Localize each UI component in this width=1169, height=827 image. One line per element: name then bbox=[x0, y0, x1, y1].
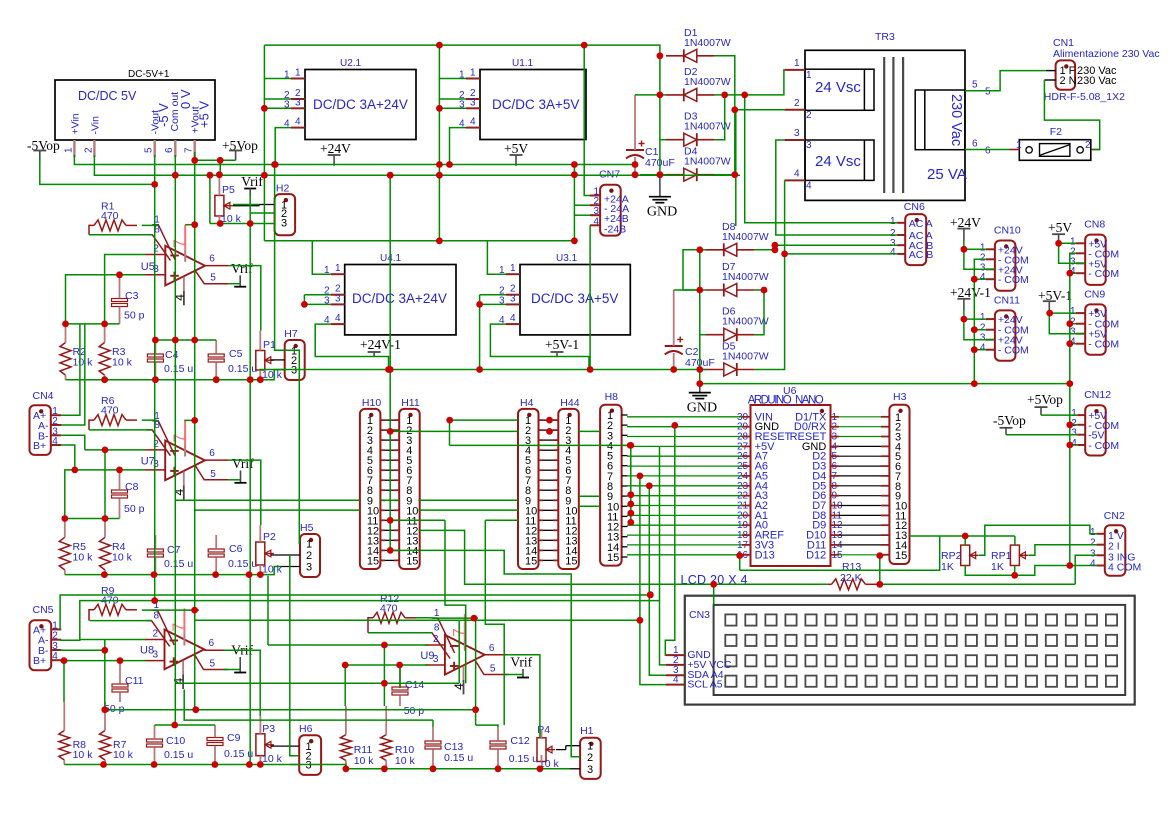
wire U5 pin7 to +5Vop bus bbox=[185, 224, 195, 226]
wire CN2 pin3 from ING line bbox=[1075, 555, 1096, 584]
pin stubs between H10 and H11 bbox=[380, 419, 385, 421]
svg-text:2: 2 bbox=[84, 147, 95, 153]
pin 1 of U8 bbox=[152, 610, 175, 645]
junction bbox=[961, 246, 968, 253]
wire x459.2 vertical bbox=[458, 620, 460, 683]
svg-text:1: 1 bbox=[794, 58, 800, 69]
pin 2 of U2.1 bbox=[291, 98, 305, 100]
wire +5V to CN8 pins 1/3 bbox=[1059, 243, 1086, 263]
svg-text:CN11: CN11 bbox=[994, 294, 1020, 306]
capacitor C12 0.15 u bbox=[490, 741, 506, 744]
svg-text:DC-5V+1: DC-5V+1 bbox=[128, 69, 170, 80]
wire CN6 pin4 row bbox=[785, 253, 898, 255]
wire CN5 pin3 to U8 pin2 bbox=[60, 640, 105, 651]
LCD module CN3 outer box bbox=[685, 596, 1135, 705]
svg-text:H8: H8 bbox=[605, 391, 619, 403]
wire x390.2 vertical from bus1 bbox=[389, 175, 391, 550]
wires H8 pins to U6 left pins bbox=[627, 416, 742, 418]
junction bbox=[476, 301, 483, 308]
capacitor C13 0.15 u bbox=[425, 741, 441, 744]
wire D8 right bbox=[755, 249, 775, 251]
junction bbox=[102, 515, 109, 522]
svg-text:5: 5 bbox=[985, 87, 991, 98]
svg-text:CN8: CN8 bbox=[1084, 219, 1105, 231]
junction bbox=[272, 161, 279, 168]
wire H4 row11 to x485.3 chain bbox=[485, 519, 518, 521]
wire bank4 AGND bus y768.8 bbox=[290, 765, 570, 769]
svg-text:7: 7 bbox=[172, 239, 189, 248]
wire +5Vop row to pin7 bbox=[195, 159, 236, 161]
wire row9 line bbox=[175, 499, 360, 501]
svg-text:0.15 u: 0.15 u bbox=[164, 363, 193, 375]
wire main bus y369.5 bbox=[259, 369, 706, 371]
svg-text:10 k: 10 k bbox=[113, 749, 134, 761]
connector CN5 bbox=[30, 620, 52, 670]
junction bbox=[212, 761, 219, 768]
junction bbox=[247, 376, 254, 383]
svg-text:H44: H44 bbox=[560, 397, 579, 409]
wire C13 feed from y720.1 bbox=[432, 720, 434, 727]
junction bbox=[670, 366, 677, 373]
svg-text:D13: D13 bbox=[755, 549, 775, 561]
wire row11 to x445 down bbox=[445, 520, 466, 683]
svg-text:10 k: 10 k bbox=[73, 357, 94, 369]
capacitor C5 0.15 u bbox=[208, 354, 224, 357]
pin 7 power of U9 bbox=[464, 614, 466, 639]
wire U7 pin8 row bbox=[89, 429, 152, 431]
svg-text:- COM: - COM bbox=[998, 274, 1029, 286]
svg-text:HDR-F-5.08_1X2: HDR-F-5.08_1X2 bbox=[1044, 91, 1125, 103]
wire U5 pin8 row bbox=[89, 234, 152, 236]
junction bbox=[207, 172, 214, 179]
junction bbox=[581, 42, 588, 49]
junction bbox=[731, 106, 738, 113]
pin 6 of H3 bbox=[881, 465, 889, 467]
junction bbox=[962, 533, 969, 540]
wire main bus to GND2 row y383.6 bbox=[700, 383, 1070, 385]
junction bbox=[627, 519, 634, 526]
wire Vrif bus x249.6 long bbox=[249, 213, 251, 765]
wire +5Vop vertical x195.1 bbox=[194, 152, 196, 710]
wire D7 leads bbox=[700, 289, 706, 291]
svg-text:+24V-1: +24V-1 bbox=[950, 285, 991, 300]
capacitor C1 470uF bbox=[626, 149, 644, 151]
wire U7 pin7 to +5Vop bus bbox=[185, 419, 195, 422]
pin 4 AC B of CN6 bbox=[897, 253, 905, 255]
op-amp U5 bbox=[165, 246, 205, 286]
pin 3 SDA A4 of CN3 bbox=[666, 674, 685, 676]
diode D6 1N4007W bbox=[724, 328, 737, 341]
junction bbox=[101, 321, 108, 328]
pin 7 power of U5 bbox=[184, 225, 186, 250]
junction bbox=[387, 517, 394, 524]
svg-text:230 Vac: 230 Vac bbox=[1077, 75, 1117, 87]
wire D6 right up to D7 row bbox=[755, 290, 764, 335]
svg-text:1: 1 bbox=[470, 68, 476, 79]
wire TR3 pin6 to F2 left bbox=[965, 149, 1010, 151]
svg-text:3: 3 bbox=[587, 764, 593, 776]
wire bus2 right portion to D4 bbox=[640, 174, 666, 176]
svg-text:DC/DC 3A+5V: DC/DC 3A+5V bbox=[492, 97, 579, 112]
junction bbox=[191, 417, 198, 424]
junction bbox=[436, 237, 443, 244]
pin 2 inverting input of U8 bbox=[145, 639, 165, 641]
svg-text:50 p: 50 p bbox=[124, 310, 145, 322]
pin 1 A+ of CN4 bbox=[51, 414, 62, 416]
wire TR3 pin5 to CN1 pin1 bbox=[965, 71, 1046, 91]
junction bbox=[152, 376, 159, 383]
svg-text:+24V-1: +24V-1 bbox=[360, 337, 401, 352]
pin 4 4 COM of CN2 bbox=[1097, 565, 1105, 567]
junction bbox=[151, 571, 158, 578]
pin 3 of TR3 bbox=[785, 139, 805, 141]
svg-text:D12: D12 bbox=[806, 549, 826, 561]
wire D1 right to x734.8 bbox=[715, 56, 735, 110]
pin 2 inverting input of U7 bbox=[145, 449, 165, 451]
svg-text:1N4007W: 1N4007W bbox=[722, 271, 769, 283]
pin 2 2 I of CN2 bbox=[1097, 544, 1105, 546]
pin 1 of H3 bbox=[881, 416, 889, 418]
diode D1 1N4007W bbox=[684, 49, 697, 62]
wire Vrif tick to H2 pin2 bbox=[250, 195, 274, 214]
svg-text:0.15 u: 0.15 u bbox=[228, 363, 257, 375]
svg-text:0.15 u: 0.15 u bbox=[509, 753, 538, 765]
svg-text:0.15 u: 0.15 u bbox=[228, 558, 257, 570]
wire D8 left loop to D7 bbox=[683, 250, 700, 290]
pin 3 non-inverting input of U9 bbox=[425, 664, 445, 666]
svg-text:7: 7 bbox=[184, 147, 195, 153]
LCD character cells bbox=[725, 614, 736, 625]
wire U5 pin5 to Vrif bbox=[229, 283, 241, 285]
svg-text:50 p: 50 p bbox=[124, 503, 145, 515]
svg-text:10 k: 10 k bbox=[395, 755, 416, 767]
svg-text:25 VA: 25 VA bbox=[927, 166, 967, 183]
pin 5 of H3 bbox=[881, 455, 889, 457]
wire U8 pin2 row bbox=[80, 639, 146, 641]
svg-text:H2: H2 bbox=[276, 183, 290, 195]
junction bbox=[246, 571, 253, 578]
resistor R8 10 k bbox=[59, 731, 70, 761]
junction bbox=[172, 337, 179, 344]
wire A5 chain x639.9 to CN3 pin4 SCL bbox=[640, 476, 666, 685]
connector CN9 bbox=[1085, 304, 1106, 354]
svg-text:B+: B+ bbox=[33, 440, 46, 452]
wire D5 left bbox=[700, 369, 706, 371]
svg-text:U1.1: U1.1 bbox=[512, 58, 534, 69]
svg-text:- COM: - COM bbox=[1088, 268, 1119, 280]
wire U9 pin5 Vrif bbox=[506, 674, 523, 676]
junction bbox=[61, 657, 68, 664]
svg-text:+24V: +24V bbox=[320, 141, 351, 156]
connector CN12 bbox=[1085, 405, 1106, 455]
pin 2 - COM of CN12 bbox=[1077, 424, 1085, 426]
pin 6 output of U7 bbox=[205, 459, 229, 461]
svg-text:10 k: 10 k bbox=[354, 755, 375, 767]
connector H10 bbox=[360, 409, 381, 569]
pin 8 of U7 bbox=[146, 430, 170, 456]
junction bbox=[387, 172, 394, 179]
svg-text:4: 4 bbox=[470, 117, 476, 128]
junction bbox=[102, 447, 109, 454]
svg-text:-24B: -24B bbox=[604, 223, 626, 235]
svg-text:3: 3 bbox=[794, 128, 800, 139]
junction bbox=[61, 515, 68, 522]
pin 1 of U1.1 bbox=[466, 78, 480, 80]
junction bbox=[761, 287, 768, 294]
junction bbox=[1046, 310, 1053, 317]
pin 4 - COM of CN10 bbox=[986, 278, 995, 280]
junction bbox=[436, 105, 443, 112]
junction bbox=[657, 92, 664, 99]
wire DC-5V+1 pin2 to bus2 bbox=[94, 155, 740, 175]
svg-text:4: 4 bbox=[52, 436, 58, 447]
connector CN1 Alimentazione 230 Vac bbox=[1056, 60, 1076, 89]
svg-text:8: 8 bbox=[154, 611, 160, 622]
potentiometer P4 10 k bbox=[537, 738, 546, 762]
connector H11 bbox=[399, 409, 420, 569]
capacitor C4 0.15 u bbox=[147, 354, 163, 357]
svg-text:H3: H3 bbox=[893, 391, 907, 403]
junction bbox=[696, 246, 703, 253]
pin 2 of U4.1 bbox=[331, 294, 345, 296]
wire U9 pin3 row bbox=[345, 664, 428, 666]
pin 2 - COM of CN11 bbox=[986, 329, 995, 331]
fuse F2 bbox=[1019, 140, 1091, 161]
junction bbox=[546, 417, 553, 424]
pin 3 B- of CN4 bbox=[51, 434, 62, 436]
wire U7 pin5 to Vrif bbox=[229, 479, 241, 481]
svg-text:470: 470 bbox=[380, 602, 398, 614]
svg-text:7: 7 bbox=[171, 623, 188, 632]
pin 5 of U8 bbox=[195, 655, 228, 670]
svg-text:H7: H7 bbox=[284, 328, 298, 340]
junction bbox=[571, 171, 578, 178]
pin 8 of U5 bbox=[146, 235, 170, 261]
primary winding 2 24 Vsc of TR3 bbox=[805, 140, 874, 180]
wire bank3/4 AGND bus y764.5 bbox=[64, 764, 290, 766]
pin 1 A+ of CN5 bbox=[51, 628, 62, 630]
svg-text:1: 1 bbox=[306, 539, 312, 551]
pin 3 B- of CN5 bbox=[51, 649, 62, 651]
resistor R2 10 k bbox=[60, 343, 71, 376]
wire DC-5V+1 pin1 to bus1 bbox=[74, 155, 635, 165]
junction bbox=[100, 761, 107, 768]
svg-text:4: 4 bbox=[794, 168, 800, 179]
svg-text:CN3: CN3 bbox=[689, 609, 710, 621]
junction bbox=[647, 592, 654, 599]
wire CN9 pin2/4 to COM chain bbox=[1070, 323, 1076, 325]
junction bbox=[627, 510, 634, 517]
junction bbox=[741, 92, 748, 99]
junction bbox=[271, 161, 278, 168]
svg-text:15: 15 bbox=[367, 555, 379, 567]
diode D5 1N4007W bbox=[724, 363, 737, 376]
pin stubs between H4 and H44 bbox=[539, 419, 544, 421]
svg-text:U3.1: U3.1 bbox=[556, 253, 578, 264]
wire +24V to CN10 pins 1/3 bbox=[964, 241, 995, 270]
pin 1 of U3.1 bbox=[506, 273, 520, 275]
pin 3 3 ING of CN2 bbox=[1097, 554, 1105, 556]
svg-text:-5Vop: -5Vop bbox=[993, 413, 1026, 428]
junction bbox=[381, 765, 388, 772]
wire y720.1 line from U8 pin4 bbox=[184, 690, 433, 721]
svg-text:3: 3 bbox=[153, 650, 159, 661]
connector H3 bbox=[889, 405, 909, 564]
pin 2 inverting input of U9 bbox=[425, 644, 445, 646]
svg-text:1: 1 bbox=[335, 263, 341, 274]
junction bbox=[546, 428, 553, 435]
junction bbox=[387, 366, 394, 373]
svg-text:7: 7 bbox=[171, 434, 188, 443]
svg-text:50 p: 50 p bbox=[404, 705, 425, 717]
svg-text:0 V: 0 V bbox=[178, 89, 193, 109]
svg-text:2: 2 bbox=[433, 634, 439, 645]
svg-text:470: 470 bbox=[101, 210, 119, 222]
junction bbox=[213, 376, 220, 383]
junction bbox=[537, 765, 544, 772]
svg-text:4: 4 bbox=[1090, 559, 1096, 570]
wire D4 right to x734.8 bbox=[715, 174, 735, 176]
pin 4 SCL A5 of CN3 bbox=[666, 684, 685, 686]
wire vertical x734.8 TR3 pin2 net bbox=[734, 110, 736, 175]
pin 1 of TR3 bbox=[785, 69, 805, 71]
connector CN7 bbox=[600, 185, 621, 236]
svg-text:C12: C12 bbox=[510, 735, 529, 747]
resistor R7 10 k bbox=[100, 731, 111, 761]
wire H2 pin3 row bbox=[210, 223, 275, 225]
svg-text:5: 5 bbox=[144, 147, 155, 153]
wire bus2 to x209.9 bbox=[209, 175, 211, 223]
wire row14 chain to H1 pin2 bbox=[390, 550, 580, 756]
pin 3 of U4.1 bbox=[331, 303, 345, 305]
pin 2 AC A of CN6 bbox=[897, 234, 905, 236]
svg-text:-Vin: -Vin bbox=[90, 116, 102, 135]
junction bbox=[151, 181, 158, 188]
wire CN2 pin1 to RP2 wiper bbox=[979, 525, 1097, 555]
wire R10 feed vertical x384.4 bbox=[383, 645, 385, 706]
junction bbox=[571, 161, 578, 168]
connector H8 bbox=[600, 405, 622, 566]
junction bbox=[495, 765, 502, 772]
wire +5Vop to CN12 pin1 bbox=[1041, 414, 1077, 416]
svg-text:4: 4 bbox=[172, 294, 186, 301]
junction bbox=[632, 171, 639, 178]
pin 3 of U2.1 bbox=[291, 107, 305, 109]
wire bank2 AGND bus y574.6 bbox=[65, 567, 281, 575]
pin 4 of U2.1 bbox=[291, 127, 305, 129]
pin 4 - COM of CN9 bbox=[1076, 343, 1085, 345]
wire line y323.9 R2/R3/C3 tops bbox=[66, 323, 120, 325]
junction bbox=[1066, 380, 1073, 387]
junction bbox=[216, 171, 223, 178]
junction bbox=[101, 376, 108, 383]
wire U8 pin1 row bbox=[142, 609, 199, 611]
svg-text:470: 470 bbox=[101, 405, 119, 417]
op-amp U9 bbox=[445, 635, 485, 675]
junction bbox=[101, 706, 108, 713]
diode D3 1N4007W bbox=[684, 133, 697, 146]
pin 2 of H3 bbox=[881, 426, 889, 428]
wire R7 feed vertical x104.8 bbox=[104, 650, 106, 712]
pin 1 +24V of CN10 bbox=[986, 248, 995, 250]
junction bbox=[671, 422, 678, 429]
secondary winding 230 Vac of TR3 bbox=[915, 90, 965, 150]
pin 15 of H3 bbox=[881, 554, 889, 556]
pin 1 +5V of CN8 bbox=[1076, 242, 1085, 244]
wire R13 left lead line bbox=[714, 583, 828, 585]
capacitor C8 50 p bbox=[112, 490, 128, 493]
dc-dc module U1.1 bbox=[480, 70, 586, 140]
wire -Vout vertical x154.7 bbox=[154, 155, 156, 601]
connector H7 bbox=[285, 340, 305, 380]
pin 1 of U2.1 bbox=[291, 78, 305, 80]
svg-text:H4: H4 bbox=[520, 397, 534, 409]
pin 1 AC A of CN6 bbox=[897, 222, 905, 224]
junction bbox=[387, 428, 394, 435]
svg-text:15: 15 bbox=[406, 555, 418, 567]
svg-text:C10: C10 bbox=[166, 735, 185, 747]
wire U4.1 pin2 bbox=[304, 294, 330, 296]
svg-text:4: 4 bbox=[890, 247, 896, 258]
svg-text:10 k: 10 k bbox=[112, 552, 133, 564]
svg-text:DC/DC 3A+24V: DC/DC 3A+24V bbox=[352, 291, 447, 306]
pin 4 of U1.1 bbox=[466, 127, 480, 129]
LCD module CN3 inner box bbox=[714, 605, 1126, 695]
resistor R6 470 bbox=[94, 415, 126, 426]
pin 4 power of U9 bbox=[463, 666, 465, 680]
junction bbox=[116, 271, 123, 278]
pin 1 +5V of CN12 bbox=[1077, 414, 1085, 416]
pin 11 of H3 bbox=[881, 514, 889, 516]
wire H44 pin2 to x569.7 bbox=[578, 430, 580, 431]
pin 1 1 V of CN2 bbox=[1097, 533, 1105, 535]
primary winding 1 24 Vsc of TR3 bbox=[805, 69, 874, 110]
pin 3 +24V of CN10 bbox=[986, 268, 995, 270]
junction bbox=[731, 171, 738, 178]
wire U9 out to P4 bbox=[506, 655, 540, 738]
op-amp U7 bbox=[165, 441, 205, 481]
resistor R12 470 bbox=[373, 612, 405, 623]
svg-text:C4: C4 bbox=[165, 349, 179, 361]
wire U3.1 pin1 feed bbox=[487, 241, 506, 274]
pin 6 output of U5 bbox=[205, 265, 229, 267]
wire long line y709.7 bbox=[105, 709, 476, 711]
svg-text:C9: C9 bbox=[227, 732, 241, 744]
wire CN7 pin1 feed from top bus x584.2 bbox=[584, 45, 590, 195]
wire top bus y45.1 bbox=[264, 45, 660, 56]
junction bbox=[971, 326, 978, 333]
wire U9 pin8 row bbox=[368, 632, 432, 634]
wire CN8 pin2/4 COM chain x1069.8 bbox=[1070, 253, 1076, 565]
junction bbox=[971, 346, 978, 353]
transformer TR3 bbox=[805, 50, 965, 200]
svg-text:4: 4 bbox=[980, 343, 986, 354]
wire C12 feed jog bbox=[476, 725, 498, 727]
svg-text:1: 1 bbox=[890, 216, 896, 227]
wire +5V row y445.4 long bbox=[450, 444, 631, 446]
wire D6 left bbox=[700, 334, 706, 336]
resistor R5 10 k bbox=[59, 537, 70, 570]
svg-text:GND: GND bbox=[687, 401, 717, 416]
pin 4 of TR3 bbox=[785, 179, 805, 181]
wire H3 pin13 to RP vertical x939.7 bbox=[740, 536, 940, 570]
svg-text:2: 2 bbox=[306, 550, 312, 562]
junction bbox=[627, 442, 634, 449]
junction bbox=[396, 662, 403, 669]
junction bbox=[446, 417, 453, 424]
wire TR3 pin4 down x784.6 bbox=[784, 180, 786, 254]
pin 1 of U4.1 bbox=[331, 273, 345, 275]
